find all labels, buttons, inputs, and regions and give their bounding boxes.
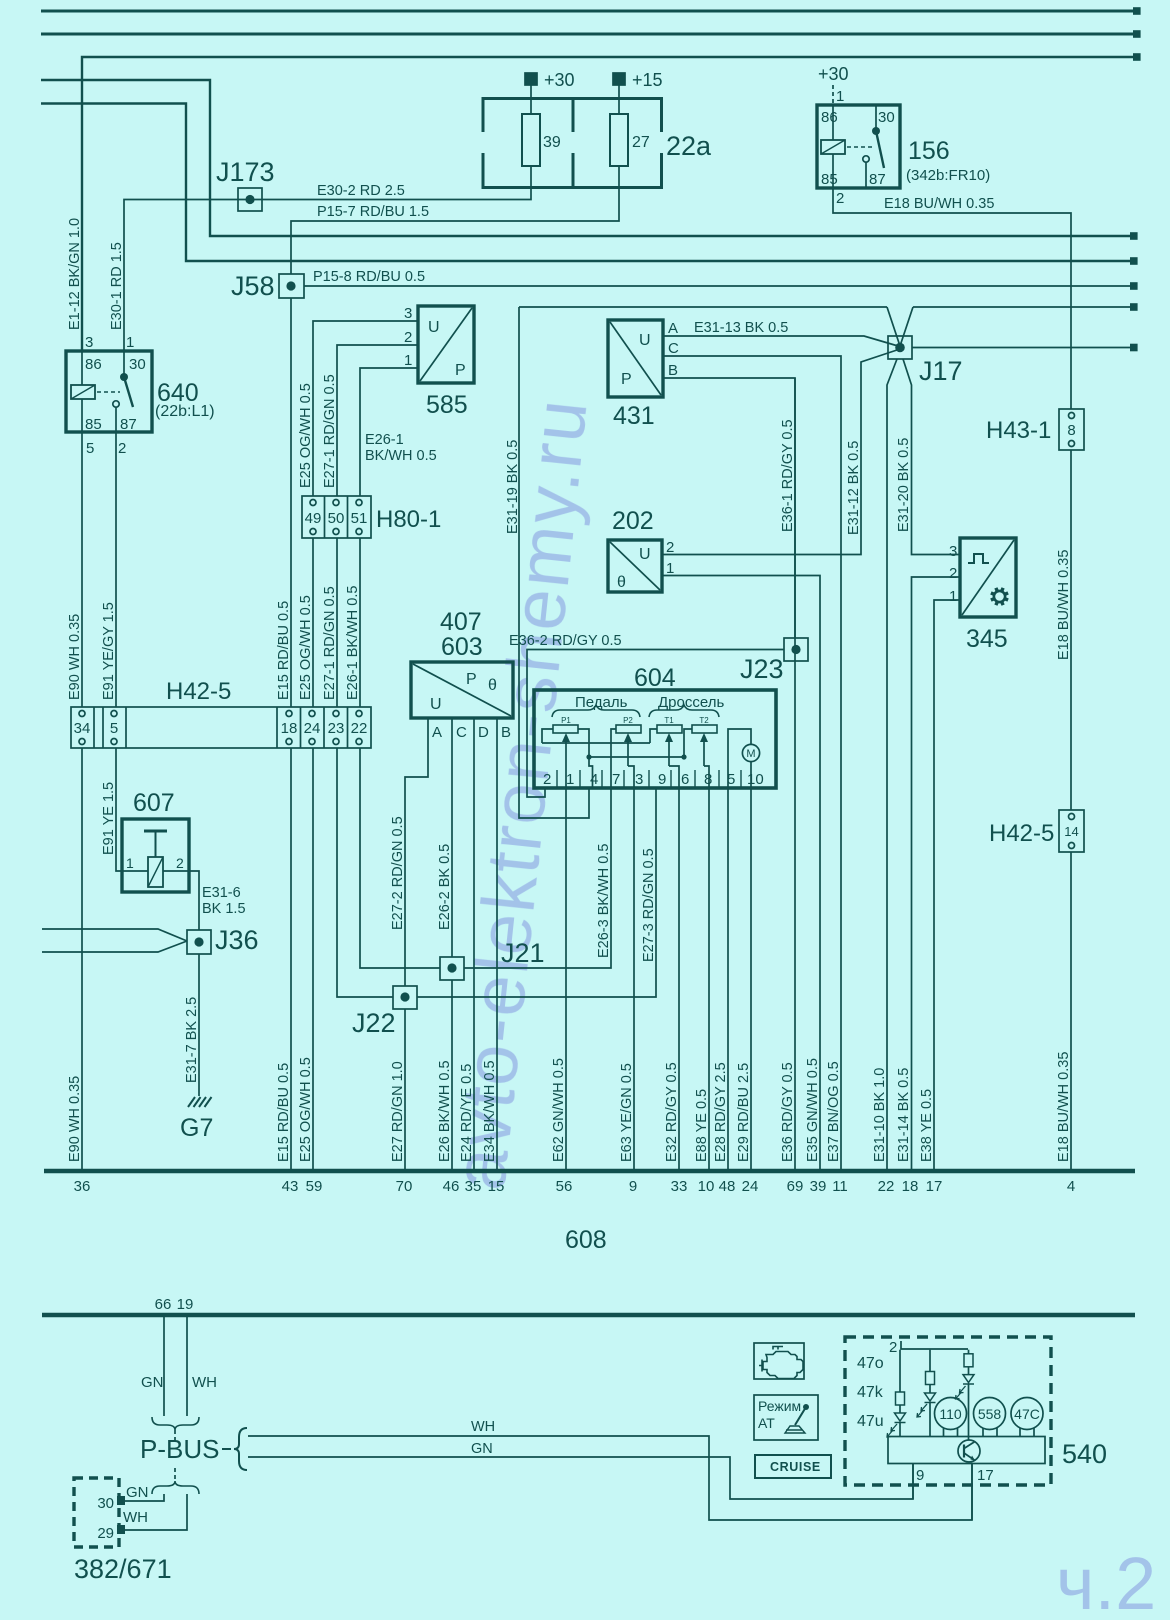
svg-text:P: P [621,371,632,388]
svg-text:H42-5: H42-5 [989,820,1054,847]
svg-text:E18 BU/WH 0.35: E18 BU/WH 0.35 [884,196,994,212]
wire E26-2 407 pinC to J21 [451,718,453,957]
svg-text:E90 WH 0.35: E90 WH 0.35 [67,1076,83,1162]
svg-text:E31-20 BK 0.5: E31-20 BK 0.5 [896,438,912,532]
svg-text:59: 59 [306,1178,323,1195]
svg-text:E31-14 BK 0.5: E31-14 BK 0.5 [896,1068,912,1162]
lamp 47C [1011,1398,1043,1430]
cluster pin wires [912,1464,914,1499]
wire E25 H80-1 to H42-5 pin24 [312,538,314,707]
svg-text:39: 39 [543,134,561,151]
svg-text:E26 BK/WH 0.5: E26 BK/WH 0.5 [437,1060,453,1162]
345 pins [949,543,957,605]
svg-text:E31-6: E31-6 [202,885,241,901]
svg-text:J23: J23 [740,654,784,684]
svg-text:9: 9 [916,1467,924,1484]
svg-text:U: U [639,546,651,563]
cluster bar [888,1437,1045,1464]
wire E27-3 J22 branch to 604 pin9 [417,788,656,997]
svg-text:E26-1: E26-1 [365,432,404,448]
svg-text:H80-1: H80-1 [376,506,441,533]
svg-text:85: 85 [821,171,838,188]
svg-text:E31-7 BK 2.5: E31-7 BK 2.5 [184,997,200,1083]
svg-text:E35 GN/WH 0.5: E35 GN/WH 0.5 [805,1058,821,1162]
svg-text:T2: T2 [699,716,709,725]
junction J17 [888,336,912,359]
bottom bus 608 [44,1169,1135,1174]
svg-text:E38 YE 0.5: E38 YE 0.5 [919,1089,935,1162]
svg-text:E18 BU/WH 0.35: E18 BU/WH 0.35 [1056,1052,1072,1162]
connector 382/671 dashed [74,1478,119,1547]
svg-text:Дроссель: Дроссель [658,694,724,711]
svg-text:608: 608 [565,1226,607,1254]
svg-text:B: B [501,724,511,741]
svg-text:WH: WH [471,1419,495,1435]
potentiometer T1 [657,725,682,733]
wire E36 J23 down continues (above J23) [794,378,796,638]
wire E37 431 pinC down to bus pin11 [663,356,841,1169]
svg-text:E91 YE/GY 1.5: E91 YE/GY 1.5 [101,602,117,700]
604 pin separators [557,770,741,788]
svg-text:(342b:FR10): (342b:FR10) [906,167,990,184]
junction J22 [393,986,417,1009]
component 607 [122,819,189,892]
svg-text:1: 1 [404,352,412,369]
svg-text:36: 36 [74,1178,91,1195]
cluster top rail pin2 [901,1341,968,1349]
svg-text:110: 110 [939,1406,962,1422]
rotated wire labels [67,218,1072,1162]
wire E31-20 J17 leg to 345 pin3 [903,359,960,555]
svg-text:35: 35 [465,1178,482,1195]
rail1 [542,742,650,744]
svg-text:2: 2 [666,539,674,556]
throttle brace [649,705,719,717]
svg-text:585: 585 [426,391,468,419]
svg-text:P: P [455,362,466,379]
svg-text:C: C [456,724,467,741]
engine icon [759,1347,803,1379]
svg-text:(22b:L1): (22b:L1) [155,403,215,420]
svg-text:30: 30 [129,356,146,373]
svg-text:407: 407 [440,608,482,636]
svg-text:E25 OG/WH 0.5: E25 OG/WH 0.5 [298,383,314,488]
wire E90 H42-5 to bus pin36 [81,748,83,1169]
svg-text:A: A [668,320,678,337]
svg-text:10: 10 [747,771,764,788]
svg-text:U: U [430,696,442,713]
wire E31-6 607 pin2 to J36 [189,871,199,930]
relay 640 pins [85,334,146,457]
wire E91 H42-5 to 607 pin1 [116,748,122,871]
svg-text:P1: P1 [561,716,571,725]
wire E62 604 pin1 to bus pin56 [565,788,567,1169]
svg-text:E26-3 BK/WH 0.5: E26-3 BK/WH 0.5 [596,844,612,958]
svg-text:1: 1 [666,560,674,577]
svg-text:1: 1 [566,771,574,788]
svg-text:E34 BK/WH 0.5: E34 BK/WH 0.5 [482,1060,498,1162]
CRUISE box [755,1455,831,1478]
svg-text:P: P [466,671,477,688]
svg-text:E29 RD/BU 2.5: E29 RD/BU 2.5 [736,1063,752,1162]
407/603 letters [430,671,511,741]
svg-text:29: 29 [97,1525,114,1542]
svg-text:70: 70 [396,1178,413,1195]
wire E35 202 pin1 to bus pin39 [662,576,820,1170]
pedal brace [552,705,640,717]
P-BUS right big brace [234,1428,247,1470]
svg-text:G7: G7 [180,1114,213,1142]
component 604 internals [534,690,776,788]
connector H80-1 [302,496,371,538]
wire E38 345 pin1 to bus pin17 [934,600,960,1169]
svg-text:Педаль: Педаль [575,694,628,711]
svg-text:18: 18 [902,1178,919,1195]
wire 585 pin2 to H80-1 pin50 [337,345,418,496]
svg-text:1: 1 [836,88,844,105]
rail2 [589,756,684,758]
svg-text:46: 46 [443,1178,460,1195]
P-BUS lower brace [174,1468,176,1481]
svg-text:U: U [428,319,440,336]
svg-text:CRUISE: CRUISE [770,1460,821,1474]
svg-text:47k: 47k [857,1384,884,1401]
svg-text:156: 156 [908,137,950,165]
wire E27-1 H80-1 to H42-5 pin23 [336,538,338,707]
ground G7 [188,1097,212,1107]
wire E27-1 H42-5 pin23 to J22 [337,748,393,997]
svg-text:J58: J58 [231,271,275,301]
fuse 27 [610,114,628,166]
svg-text:48: 48 [719,1178,736,1195]
bus line top 2 [41,33,1139,36]
svg-text:47C: 47C [1014,1406,1040,1422]
svg-text:ч.2: ч.2 [1056,1542,1156,1620]
svg-text:H42-5: H42-5 [166,678,231,705]
wire J36 arrow line bottom [42,941,187,952]
svg-text:GN: GN [126,1484,149,1501]
svg-text:E31-13 BK 0.5: E31-13 BK 0.5 [694,320,788,336]
svg-text:24: 24 [742,1178,759,1195]
big labels [215,157,963,1038]
cluster 540 dashed box [845,1337,1051,1485]
svg-text:43: 43 [282,1178,299,1195]
wire E18 H43-1 to H42-5 [1070,450,1072,810]
bus end squares right [1130,7,1141,351]
svg-text:603: 603 [441,633,483,661]
svg-text:WH: WH [192,1374,217,1391]
P-BUS wires 66 19 [163,1315,165,1416]
svg-text:30: 30 [878,109,895,126]
junction J173 [238,188,262,211]
svg-text:607: 607 [133,789,175,817]
svg-text:1: 1 [126,334,134,351]
wire E31-19 from line y307 to 604 pin4 [519,307,589,818]
svg-text:E31-19 BK 0.5: E31-19 BK 0.5 [505,440,521,534]
svg-text:33: 33 [671,1178,688,1195]
431 pins [621,320,679,388]
svg-text:49: 49 [305,510,322,527]
svg-text:23: 23 [328,720,345,737]
svg-text:47u: 47u [857,1413,884,1430]
svg-text:E91 YE 1.5: E91 YE 1.5 [101,782,117,855]
svg-text:E31-10 BK 1.0: E31-10 BK 1.0 [872,1068,888,1162]
svg-text:E27-1 RD/GN 0.5: E27-1 RD/GN 0.5 [322,586,338,700]
svg-text:E25 OG/WH 0.5: E25 OG/WH 0.5 [298,595,314,700]
bus line top 1 [41,10,1139,13]
wire E63 604 pin3 to bus pin9 [633,788,635,1169]
wire E24 407 pinD to bus pin35 [473,718,475,1169]
svg-text:11: 11 [832,1178,848,1195]
wire E26-3 J21 branch to 604 pin7 [464,788,611,968]
wire E31-7 J36 to G7 [198,954,200,1096]
svg-text:θ: θ [488,677,497,694]
svg-text:J22: J22 [352,1008,396,1038]
svg-text:1: 1 [949,588,957,605]
P-BUS WH line to cluster pin17 [248,1436,972,1520]
potentiometer P1 [553,725,578,733]
svg-text:P15-8 RD/BU 0.5: P15-8 RD/BU 0.5 [313,269,425,285]
wire E31-10 J17 leg to bus pin22 [887,359,897,1169]
svg-text:69: 69 [787,1178,804,1195]
svg-text:2: 2 [118,440,126,457]
svg-text:E63 YE/GN 0.5: E63 YE/GN 0.5 [619,1063,635,1162]
wire E18 H42-5 to bus pin4 [1070,852,1072,1169]
svg-text:3: 3 [635,771,643,788]
svg-text:E36 RD/GY 0.5: E36 RD/GY 0.5 [780,1062,796,1162]
svg-text:E27-2 RD/GN 0.5: E27-2 RD/GN 0.5 [390,816,406,930]
connector H42-5 left [71,707,371,748]
svg-text:9: 9 [629,1178,637,1195]
svg-text:10: 10 [698,1178,715,1195]
H42-5 numbers [74,422,1079,839]
wire line y307 right part [913,306,1133,308]
rezhim AT box [754,1395,818,1440]
202 pins [617,539,674,591]
svg-text:WH: WH [123,1509,148,1526]
wire 585 pin3 to H80-1 pin49 [313,321,418,496]
svg-text:87: 87 [869,171,886,188]
potentiometer T2 [692,725,717,733]
svg-text:J173: J173 [216,157,275,187]
wire line y307 left part [519,306,887,308]
svg-text:27: 27 [632,134,650,151]
wire E91 relay640 pin2 to H42-5 pin5 [115,432,117,707]
svg-text:P2: P2 [623,716,633,725]
wire E27 J22 to bus pin70 [404,1009,406,1169]
svg-text:2: 2 [176,855,184,871]
wire E90 relay640 pin5 to H42-5 pin34 [81,432,83,707]
watermark avto-elektron-shemy.ru [437,394,1156,1620]
wire E30-2 from fuse39 through J173 to relay 640 [124,189,531,351]
svg-text:24: 24 [304,720,321,737]
svg-text:E62 GN/WH 0.5: E62 GN/WH 0.5 [551,1058,567,1162]
svg-text:D: D [478,724,489,741]
svg-text:C: C [668,340,679,357]
svg-text:P15-7 RD/BU 1.5: P15-7 RD/BU 1.5 [317,204,429,220]
svg-text:1: 1 [126,855,134,871]
potentiometer P2 [616,725,641,733]
svg-text:202: 202 [612,507,654,535]
svg-text:+30: +30 [544,70,575,90]
svg-text:+15: +15 [632,70,663,90]
svg-text:30: 30 [97,1495,114,1512]
component 202 [608,540,662,592]
svg-text:E37 BN/OG 0.5: E37 BN/OG 0.5 [826,1061,842,1162]
svg-text:E1-12 BK/GN 1.0: E1-12 BK/GN 1.0 [67,218,83,330]
svg-text:2: 2 [889,1339,897,1356]
svg-text:86: 86 [85,356,102,373]
svg-text:E27-3 RD/GN 0.5: E27-3 RD/GN 0.5 [641,848,657,962]
wire line y307 V-dip through J17 [887,307,913,346]
junction J23 [784,638,808,661]
svg-text:E88 YE 0.5: E88 YE 0.5 [694,1089,710,1162]
junction J58 [279,274,304,298]
H80-1 numbers [305,510,368,527]
+30 +15 labels [544,64,849,90]
svg-text:P-BUS: P-BUS [140,1434,219,1464]
bottom section [74,1315,1051,1547]
wire E27-2 407 pinA to J22 [405,718,428,986]
wire P15-7 from fuse27 to J58 [291,189,619,274]
svg-text:J17: J17 [919,356,963,386]
svg-text:E90 WH 0.35: E90 WH 0.35 [67,614,83,700]
wire J36 arrow line top [42,929,187,941]
svg-text:E26-2 BK 0.5: E26-2 BK 0.5 [437,844,453,930]
svg-text:558: 558 [978,1406,1002,1422]
relay 640 [66,351,152,432]
svg-text:E30-1 RD 1.5: E30-1 RD 1.5 [109,242,125,330]
svg-text:E32 RD/GY 0.5: E32 RD/GY 0.5 [664,1062,680,1162]
svg-text:431: 431 [613,402,655,430]
wire E15 J58 to H42-5 pin18 [290,298,292,707]
svg-text:H43-1: H43-1 [986,417,1051,444]
junction J21 [440,957,464,980]
svg-text:2: 2 [949,565,957,582]
wire E18 relay156 pin2 to H43-1 [833,188,1071,409]
svg-text:Режим: Режим [758,1398,801,1414]
svg-text:E15 RD/BU 0.5: E15 RD/BU 0.5 [276,601,292,700]
svg-text:M: M [746,748,755,760]
svg-text:18: 18 [281,720,298,737]
component 431 [608,320,663,397]
svg-text:87: 87 [120,416,137,433]
wire E26-1 H80-1 to H42-5 pin22 [359,538,361,707]
connector H43-1 [1059,409,1084,450]
svg-text:4: 4 [590,771,598,788]
wire E28 604 pin5 to bus pin48 [727,788,729,1169]
svg-text:17: 17 [926,1178,943,1195]
svg-text:8: 8 [704,771,712,788]
relay 156 [817,105,900,188]
svg-text:345: 345 [966,625,1008,653]
svg-text:2: 2 [543,771,551,788]
svg-text:E15 RD/BU 0.5: E15 RD/BU 0.5 [276,1063,292,1162]
svg-text:BK 1.5: BK 1.5 [202,901,246,917]
svg-text:19: 19 [177,1296,194,1313]
second bus [42,1313,1135,1318]
svg-text:6: 6 [681,771,689,788]
svg-text:85: 85 [85,416,102,433]
svg-text:E31-12 BK 0.5: E31-12 BK 0.5 [846,441,862,535]
chain 2 [929,1350,931,1372]
wire E31-14 345 pin2 to bus pin18 [912,577,961,1169]
P1 wiper arrow [565,741,567,788]
svg-text:5: 5 [86,440,94,457]
wire E31-12 202 pin2 to J17 [662,350,897,555]
svg-text:E24 RD/YE 0.5: E24 RD/YE 0.5 [459,1064,475,1162]
wire E31-13 431 pinA to J17 [663,336,898,346]
svg-text:9: 9 [658,771,666,788]
component 585 [418,306,474,383]
svg-text:4: 4 [1067,1178,1075,1195]
wire E15 H42-5 to bus pin43 [290,748,292,1169]
wires from lower brace to 382/671 [124,1494,164,1501]
svg-text:J21: J21 [501,938,545,968]
transistor [958,1440,980,1462]
wire P15-8 from J58 to right [304,285,1133,287]
svg-text:АТ: АТ [758,1415,775,1431]
wire E88 604 pin8 to bus pin10 [708,788,710,1169]
svg-text:E25 OG/WH 0.5: E25 OG/WH 0.5 [298,1057,314,1162]
svg-text:A: A [432,724,442,741]
wire E26-1 H42-5 pin22 to J21 [360,748,440,968]
wire E29 604 pin10 to bus pin24 [750,788,752,1169]
svg-text:5: 5 [727,771,735,788]
P-BUS GN line to cluster pin9 [248,1457,913,1499]
svg-text:+30: +30 [818,64,849,84]
svg-text:B: B [668,362,678,379]
chain 3 [968,1350,970,1354]
connector H42-5 right [1059,810,1084,852]
bus line 3 [41,80,1133,236]
svg-text:E28 RD/GY 2.5: E28 RD/GY 2.5 [713,1062,729,1162]
chain 1 resistor+LED [899,1350,901,1392]
engine icon box [754,1343,804,1379]
svg-text:θ: θ [617,574,626,591]
svg-text:382/671: 382/671 [74,1554,172,1584]
wire E34 407 pinB to bus pin15 [496,718,498,1169]
svg-text:47o: 47o [857,1355,884,1372]
wire E36-1 431 pinB to J23 to bus pin69 [663,378,795,1169]
svg-text:15: 15 [488,1178,505,1195]
svg-text:J36: J36 [215,925,259,955]
svg-text:E36-1 RD/GY 0.5: E36-1 RD/GY 0.5 [780,419,796,532]
585 pins [404,305,466,379]
svg-text:22a: 22a [666,131,712,161]
bus1 pin numbers [74,1178,1076,1195]
svg-text:66: 66 [155,1296,172,1313]
svg-text:3: 3 [85,334,93,351]
svg-text:E18 BU/WH 0.35: E18 BU/WH 0.35 [1056,550,1072,660]
svg-text:14: 14 [1064,824,1078,839]
wire J17 output right [912,347,1133,349]
svg-text:51: 51 [351,510,368,527]
svg-text:E36-2 RD/GY 0.5: E36-2 RD/GY 0.5 [509,633,622,649]
svg-text:17: 17 [977,1467,994,1484]
svg-text:50: 50 [328,510,345,527]
svg-text:8: 8 [1067,422,1075,439]
component 345 [960,538,1016,617]
svg-text:39: 39 [810,1178,827,1195]
wire E36-2 J23 to 604 pin2 [527,650,784,798]
P-BUS upper brace [152,1417,199,1430]
svg-text:3: 3 [404,305,412,322]
fuse box 22a [483,99,662,188]
svg-text:5: 5 [110,720,118,737]
svg-text:BK/WH 0.5: BK/WH 0.5 [365,448,437,464]
lamp 110 [935,1398,967,1430]
